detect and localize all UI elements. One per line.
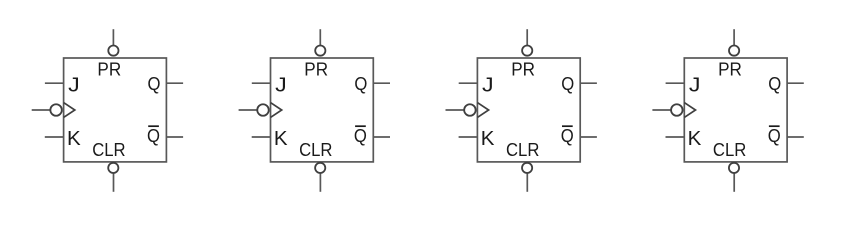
preset inversion bubble U3 — [522, 46, 532, 56]
overline of Q-bar U2 — [355, 125, 366, 127]
preset inversion bubble U1 — [108, 46, 118, 56]
wire J input stub U1 — [45, 82, 64, 84]
clock inversion bubble U1 — [50, 104, 62, 116]
preset inversion bubble U4 — [729, 46, 739, 56]
wire Q-bar output stub U4 — [787, 136, 804, 138]
J-K flip-flop U1 — [32, 29, 183, 192]
J-K flip-flop U2 — [239, 29, 390, 192]
clock inversion bubble U4 — [671, 104, 683, 116]
flip-flop U2 body — [271, 58, 374, 162]
svg-text:CLR: CLR — [92, 139, 125, 160]
wire CLR clear stub U3 — [526, 173, 528, 192]
clock edge triangle U1 — [64, 103, 75, 118]
J-K flip-flop U3 — [446, 29, 597, 192]
svg-text:Q: Q — [147, 126, 160, 146]
clock edge triangle U2 — [271, 103, 282, 118]
flip-flop U3 body — [477, 58, 580, 162]
overline of Q-bar U3 — [562, 125, 573, 127]
wire K input stub U1 — [45, 136, 64, 138]
wire clock input stub U4 — [652, 109, 671, 111]
svg-text:PR: PR — [97, 59, 121, 80]
clear inversion bubble U4 — [729, 163, 739, 173]
wire K input stub U2 — [252, 136, 271, 138]
svg-text:K: K — [688, 127, 702, 150]
wire clock input stub U3 — [446, 109, 465, 111]
clock inversion bubble U2 — [257, 104, 269, 116]
wire CLR clear stub U2 — [319, 173, 321, 192]
svg-text:CLR: CLR — [713, 139, 746, 160]
svg-text:J: J — [275, 74, 287, 97]
flip-flop U4 body — [684, 58, 787, 162]
clock edge triangle U3 — [477, 103, 488, 118]
wire K input stub U3 — [459, 136, 478, 138]
J-K flip-flop U4 — [652, 29, 803, 192]
svg-text:Q: Q — [354, 74, 367, 94]
svg-text:Q: Q — [768, 74, 781, 94]
svg-text:PR: PR — [304, 59, 328, 80]
wire PR preset stub U1 — [112, 29, 114, 45]
wire J input stub U4 — [666, 82, 685, 84]
overline of Q-bar U1 — [148, 125, 159, 127]
wire Q output stub U1 — [166, 82, 183, 84]
svg-text:K: K — [274, 127, 288, 150]
wire CLR clear stub U1 — [113, 173, 115, 192]
svg-text:CLR: CLR — [506, 139, 539, 160]
svg-text:Q: Q — [561, 74, 574, 94]
overline of Q-bar U4 — [769, 125, 780, 127]
wire clock input stub U1 — [32, 109, 51, 111]
svg-text:K: K — [67, 127, 81, 150]
svg-text:K: K — [481, 127, 495, 150]
svg-text:J: J — [689, 74, 701, 97]
svg-text:Q: Q — [354, 126, 367, 146]
wire Q output stub U2 — [373, 82, 390, 84]
clock inversion bubble U3 — [464, 104, 476, 116]
svg-text:CLR: CLR — [299, 139, 332, 160]
svg-text:Q: Q — [768, 126, 781, 146]
svg-text:PR: PR — [511, 59, 535, 80]
flip-flop U1 body — [64, 58, 167, 162]
wire J input stub U3 — [459, 82, 478, 84]
wire PR preset stub U3 — [526, 29, 528, 45]
preset inversion bubble U2 — [315, 46, 325, 56]
svg-text:J: J — [68, 74, 80, 97]
svg-text:Q: Q — [561, 126, 574, 146]
wire Q-bar output stub U3 — [580, 136, 597, 138]
wire CLR clear stub U4 — [733, 173, 735, 192]
wire PR preset stub U4 — [733, 29, 735, 45]
svg-text:J: J — [482, 74, 494, 97]
wire J input stub U2 — [252, 82, 271, 84]
wire clock input stub U2 — [239, 109, 258, 111]
wire Q output stub U3 — [580, 82, 597, 84]
wire PR preset stub U2 — [319, 29, 321, 45]
clear inversion bubble U2 — [315, 163, 325, 173]
clock edge triangle U4 — [684, 103, 695, 118]
wire Q-bar output stub U1 — [166, 136, 183, 138]
wire K input stub U4 — [666, 136, 685, 138]
svg-text:PR: PR — [718, 59, 742, 80]
svg-text:Q: Q — [148, 74, 161, 94]
wire Q-bar output stub U2 — [373, 136, 390, 138]
wire Q output stub U4 — [787, 82, 804, 84]
clear inversion bubble U3 — [522, 163, 532, 173]
clear inversion bubble U1 — [108, 163, 118, 173]
